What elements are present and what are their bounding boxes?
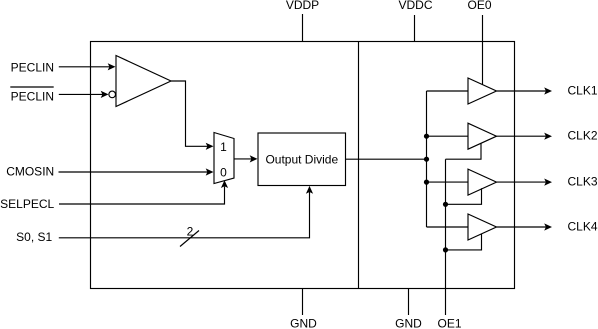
label Output Divide [265,153,338,167]
svg-text:SELPECL: SELPECL [0,197,54,211]
label mux input 0 [220,165,227,179]
svg-text:GND: GND [290,317,317,329]
svg-text:OE0: OE0 [467,0,491,12]
pin OE0 stem [482,15,484,85]
internal divider wall [358,42,360,289]
label VDDP [286,0,319,12]
output buffer 1 [468,78,497,104]
output buffer 3 [468,169,497,195]
label GND (right) [395,317,422,329]
pin OE1 stem [445,159,447,315]
junction dot OE1/buffer3 [443,202,448,207]
label CLK1 [568,83,598,97]
label SELPECL [0,197,54,211]
wire SELPECL to mux select [59,180,228,204]
svg-text:CLK4: CLK4 [568,219,598,233]
input buffer (PECL receiver) [116,56,171,107]
enable stub buffer4 to OE1 [446,234,482,250]
pin GND2 stem [408,289,410,316]
svg-text:PECLIN: PECLIN [11,89,54,103]
junction dot buffer2 tap [424,134,429,139]
wire CLK2 output [497,133,553,140]
wire buffer output to mux input 1 [171,81,214,150]
svg-text:1: 1 [220,140,227,154]
wire feed to buffer1 [427,90,469,92]
svg-text:2: 2 [187,224,194,238]
outer block boundary [91,42,515,289]
svg-text:PECLIN: PECLIN [11,60,54,74]
label PECLIN [11,60,54,74]
label OE0 [467,0,491,12]
output buffer 4 [468,214,497,240]
label CLK3 [568,175,598,189]
Output Divide block [258,133,346,186]
wire PECLIN input [59,63,116,70]
wire feed to buffer3 [427,181,469,183]
pin GND1 stem [302,289,304,316]
label VDDC [398,0,432,12]
svg-text:VDDP: VDDP [286,0,319,12]
label CMOSIN [6,164,54,178]
wire feed to buffer2 [427,135,469,137]
label bus width 2 [187,224,194,238]
label S0, S1 [16,230,52,244]
svg-text:CLK1: CLK1 [568,83,598,97]
mux (2:1) [214,133,234,184]
inversion bubble on PECLIN- input [109,91,116,98]
wire CMOSIN to mux input 0 [59,168,214,175]
svg-text:GND: GND [395,317,422,329]
svg-text:CLK2: CLK2 [568,129,598,143]
enable stub buffer3 to OE1 [446,188,482,204]
wire mux output to divider [234,155,258,162]
label mux input 1 [220,140,227,154]
wire divider output to clock tree [346,158,427,160]
pin VDDP stem [302,14,304,42]
label CLK4 [568,219,598,233]
svg-text:0: 0 [220,165,227,179]
junction dot at feed line [424,157,429,162]
wire CLK4 output [497,223,553,230]
wire CLK1 output [497,87,553,94]
wire PECLIN- input [59,91,109,98]
clock feed line [426,91,428,227]
enable stub buffer2 to OE1 [446,143,482,159]
svg-text:Output Divide: Output Divide [265,153,338,167]
label CLK2 [568,129,598,143]
junction dot OE1/buffer4 [443,247,448,252]
label PECLIN- (with overline) [11,89,54,103]
svg-text:S0, S1: S0, S1 [16,230,52,244]
wire CLK3 output [497,179,553,186]
junction dot buffer3 tap [424,180,429,185]
overline for PECLIN- label [10,86,53,88]
label GND (left) [290,317,317,329]
wire feed to buffer4 [427,226,469,228]
pin VDDC stem [414,15,416,42]
label OE1 [437,317,461,329]
output buffer 2 [468,123,497,149]
bus width slash [180,231,199,247]
svg-text:OE1: OE1 [437,317,461,329]
svg-text:CMOSIN: CMOSIN [6,164,54,178]
svg-text:VDDC: VDDC [398,0,432,12]
svg-text:CLK3: CLK3 [568,175,598,189]
wire S0,S1 bus to divider [59,186,313,238]
